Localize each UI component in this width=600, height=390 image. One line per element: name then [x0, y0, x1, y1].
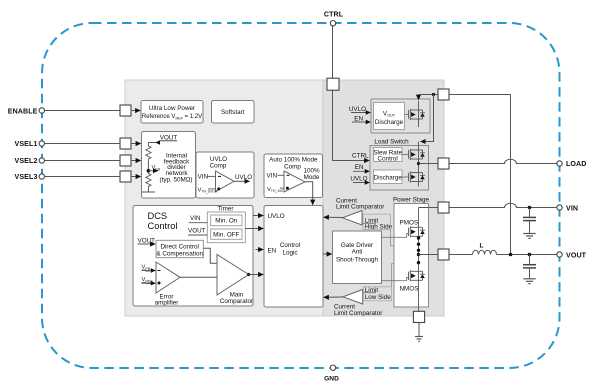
block: VOUT Discharge: [349, 99, 430, 133]
op-amp: Auto 100% Mode comparator triangle: [267, 168, 320, 193]
transistor Q1 (VOUT discharge FET): [405, 95, 425, 128]
op-amp: current limit comparator high side: [324, 211, 393, 231]
transistor Q2 (load switch slew rate FET): [402, 142, 425, 161]
svg-text:EN: EN: [355, 164, 364, 171]
svg-text:Comp: Comp: [284, 164, 301, 171]
wire: EN stub into control logic: [256, 249, 264, 251]
wire: switch node to SW pin: [419, 254, 439, 256]
svg-text:EN: EN: [354, 115, 363, 122]
svg-text:Control: Control: [148, 221, 178, 231]
svg-text:Ultra Low Power: Ultra Low Power: [149, 105, 195, 112]
svg-text:UVLO: UVLO: [350, 175, 367, 182]
node VIN (timer input): [189, 215, 208, 223]
pin VSEL1: [15, 138, 131, 149]
resistor R1 (divider top): [146, 143, 151, 163]
pin ENABLE: [8, 105, 131, 116]
svg-text:VOUT: VOUT: [566, 252, 587, 260]
node EN into load switch: [353, 164, 369, 171]
pin square: LOAD: [438, 158, 449, 169]
pin square: PGND: [413, 311, 424, 322]
wire: low-side limit box and sense lines: [363, 264, 394, 301]
svg-text:Logic: Logic: [282, 250, 297, 257]
node CTRL into load switch: [333, 90, 370, 160]
node: vertical line joins VOUT net: [509, 253, 513, 257]
wire: main comparator output to control logic: [249, 274, 264, 276]
svg-text:VIN: VIN: [198, 174, 209, 181]
wire: NMOS gate from gate driver: [382, 278, 409, 281]
pin square: SW: [438, 249, 449, 260]
transistor Q4 (PMOS): [409, 208, 425, 238]
capacitor C1 (VIN): [523, 206, 536, 233]
wire: switch node chain with junction dots: [417, 236, 420, 271]
svg-text:Discharge: Discharge: [375, 119, 404, 126]
svg-text:Shoot-Through: Shoot-Through: [336, 257, 379, 264]
block: Direct Control & Compensation: [138, 237, 204, 257]
svg-text:GND: GND: [324, 376, 339, 383]
block: Control Logic: [264, 206, 323, 308]
svg-text:Comp: Comp: [210, 163, 227, 170]
pin LOAD: [557, 160, 587, 168]
pin square: VOUT discharge output: [438, 89, 449, 100]
divider ground rail: [142, 191, 155, 193]
block: Gate Driver Anti Shoot-Through: [333, 231, 382, 284]
node UVLO into load switch: [350, 175, 369, 182]
svg-text:ENABLE: ENABLE: [8, 107, 38, 115]
svg-text:Power Stage: Power Stage: [393, 196, 430, 203]
transistor Q5 (NMOS): [409, 270, 425, 311]
svg-text:Softstart: Softstart: [221, 109, 245, 116]
node VOUT (timer input): [188, 228, 207, 235]
chip boundary (dashed): [42, 23, 560, 368]
svg-text:Comparator: Comparator: [220, 298, 253, 305]
block: internal feedback divider network: [131, 132, 196, 199]
pin square: VIN: [438, 202, 449, 213]
op-amp: error amplifier: [142, 262, 181, 307]
svg-text:VSEL3: VSEL3: [15, 173, 38, 181]
ground (C2): [523, 279, 535, 284]
svg-text:Control: Control: [378, 156, 398, 163]
svg-text:VOUT: VOUT: [138, 237, 156, 244]
pin CTRL: [324, 11, 344, 91]
pin VOUT: [557, 252, 587, 260]
pin VSEL3: [15, 171, 131, 182]
svg-text:VIN: VIN: [566, 205, 578, 213]
svg-text:& Compensation: & Compensation: [156, 251, 203, 258]
wire: direct control to main comparator: [203, 248, 217, 263]
current limit comparator (high side) labels: [336, 198, 384, 211]
wire: LOAD pin to LOAD terminal (with crossover hop): [449, 159, 557, 163]
wire: load switch to LOAD pin: [417, 162, 438, 165]
svg-text:PMOS: PMOS: [400, 220, 419, 227]
block: Power Stage: [393, 196, 430, 307]
svg-text:Anti: Anti: [352, 249, 363, 256]
block: Timer: [207, 206, 245, 243]
svg-text:Min. OFF: Min. OFF: [213, 231, 239, 238]
svg-text:(typ. 50MΩ): (typ. 50MΩ): [159, 177, 192, 184]
svg-text:amplifier: amplifier: [155, 300, 179, 307]
svg-text:UVLO: UVLO: [349, 106, 366, 113]
op-amp: current limit comparator low side: [324, 287, 392, 317]
svg-text:Load Switch: Load Switch: [374, 138, 409, 145]
wire: discharge FET to VOUT-discharge pin and load switch: [419, 93, 439, 142]
svg-text:Limit Comparator: Limit Comparator: [336, 204, 384, 211]
inductor L: [449, 242, 557, 254]
op-amp: UVLO comparator triangle: [198, 171, 253, 194]
block: Load Switch: [370, 138, 429, 190]
svg-text:VIN: VIN: [267, 173, 278, 180]
block U1: Ultra Low Power Reference: [131, 101, 203, 124]
svg-text:CTRL: CTRL: [352, 152, 369, 159]
svg-text:NMOS: NMOS: [400, 285, 419, 292]
wire: VOUT discharge pin to output node (vertical): [449, 94, 511, 96]
wire: power stage to VIN pin: [419, 207, 439, 209]
svg-text:L: L: [480, 242, 484, 249]
wire: VIN pin to VIN terminal (with crossover hop): [449, 203, 557, 207]
ground (power stage): [415, 323, 423, 342]
wire: auto 100% comp output to control logic: [305, 182, 313, 205]
block: UVLO Comp: [196, 152, 254, 198]
svg-text:Auto 100% Mode: Auto 100% Mode: [269, 157, 318, 164]
wire: high-side limit box and sense lines: [362, 214, 394, 246]
svg-text:LOAD: LOAD: [566, 160, 587, 168]
block: Softstart: [212, 101, 255, 124]
svg-text:Timer: Timer: [218, 206, 234, 213]
block: DCS Control: [133, 206, 253, 307]
wire: UVLO stub into control logic: [253, 215, 263, 217]
capacitor C2 (VOUT): [523, 253, 536, 279]
resistor R2 (divider bottom): [146, 174, 151, 191]
svg-text:Discharge: Discharge: [374, 175, 403, 182]
svg-text:VSEL1: VSEL1: [15, 140, 38, 148]
wire: error amp output: [180, 276, 217, 278]
power/load-switch gray sub-panel: [323, 80, 444, 316]
svg-text:CTRL: CTRL: [324, 11, 344, 19]
wire: PMOS gate from gate driver: [382, 234, 409, 238]
svg-text:Direct Control: Direct Control: [160, 244, 199, 251]
svg-text:Min. On: Min. On: [215, 218, 238, 225]
wire: control logic output to gate driver: [323, 253, 332, 255]
svg-text:VOUT: VOUT: [188, 228, 206, 235]
ground (C1): [523, 234, 535, 239]
svg-text:EN: EN: [268, 247, 277, 254]
svg-text:Control: Control: [280, 242, 300, 249]
svg-text:Limit Comparator: Limit Comparator: [334, 310, 382, 317]
svg-text:VIN: VIN: [190, 215, 201, 222]
pin VSEL2: [15, 155, 131, 166]
svg-text:Mode: Mode: [304, 174, 320, 181]
svg-text:UVLO: UVLO: [235, 174, 252, 181]
node VFB: [147, 162, 161, 174]
pin GND: [324, 365, 339, 383]
op-amp: main comparator: [217, 255, 253, 305]
block: Auto 100% Mode Comp: [264, 154, 323, 198]
pin VIN: [557, 205, 578, 213]
svg-text:VSEL2: VSEL2: [15, 157, 38, 165]
svg-text:Low Side: Low Side: [365, 294, 391, 301]
main internal gray panel: [125, 80, 444, 316]
wire: timer output into control logic: [245, 228, 263, 230]
svg-text:Reference VREF = 1.2V: Reference VREF = 1.2V: [142, 114, 202, 121]
svg-text:DCS: DCS: [148, 211, 168, 221]
svg-text:UVLO: UVLO: [268, 213, 285, 220]
transistor Q3 (load switch discharge FET): [402, 159, 425, 187]
